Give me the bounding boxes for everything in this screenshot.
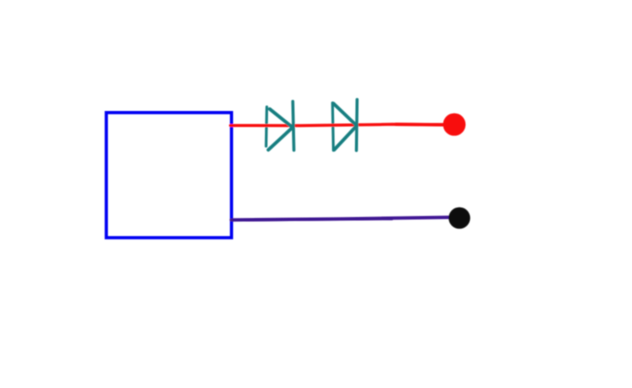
node: black return terminal dot <box>449 207 471 229</box>
wire: purple net from box output to return terminal <box>231 217 450 220</box>
diode D1 triangle and cathode bar <box>268 101 294 150</box>
wire: red net overlapping second stroke (right segment) <box>396 123 450 127</box>
diode D2 triangle and cathode bar <box>334 100 358 151</box>
diode D1 anode bar <box>265 107 268 146</box>
component box U1 <box>106 113 231 238</box>
diode D2 anode bar <box>331 103 335 151</box>
node: red output terminal dot <box>443 113 466 136</box>
wire: red net from box output to anode terminal <box>231 124 455 125</box>
wire: purple net overlapping second stroke (left segment) <box>232 219 393 220</box>
